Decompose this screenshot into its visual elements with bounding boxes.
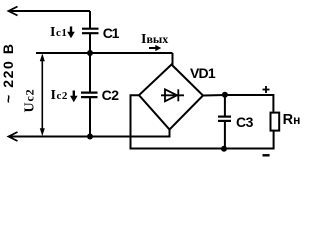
- node C3 bottom junction: [221, 146, 227, 152]
- label Uc2: [24, 84, 37, 116]
- wire middle rail: [36, 52, 173, 54]
- wire negative output (left corner to bottom rail): [131, 95, 274, 148]
- label Rн: [283, 114, 301, 127]
- label C2: [102, 89, 119, 102]
- capacitor C1: [82, 11, 99, 53]
- label ~220 В: [1, 43, 15, 103]
- label VD1: [190, 67, 215, 80]
- output current arrow Iвых: [149, 45, 161, 51]
- wire positive output (right corner): [203, 95, 273, 112]
- plus sign: [263, 86, 270, 93]
- wire stub top corner: [172, 53, 174, 65]
- label Ic2: [51, 91, 68, 101]
- bridge rectifier VD1 diamond: [139, 65, 203, 130]
- label C1: [103, 27, 119, 40]
- node C3 top junction: [222, 92, 228, 98]
- diode symbol inside VD1: [161, 89, 184, 101]
- capacitor C3: [218, 95, 231, 149]
- current arrow Ic1: [67, 27, 75, 39]
- wire bottom rail (mains terminal 2): [9, 130, 170, 141]
- dimension arrow Uc2: [40, 53, 45, 136]
- current arrow Ic2: [70, 91, 78, 103]
- label Ic1: [50, 28, 67, 38]
- label C3: [236, 116, 253, 129]
- minus sign: [263, 154, 270, 156]
- label Iвых: [141, 34, 168, 45]
- resistor Rн: [271, 113, 280, 131]
- node B junction: [87, 134, 93, 140]
- capacitor C2: [81, 53, 98, 137]
- node A junction: [87, 50, 93, 56]
- wire top rail (mains terminal 1): [9, 7, 91, 16]
